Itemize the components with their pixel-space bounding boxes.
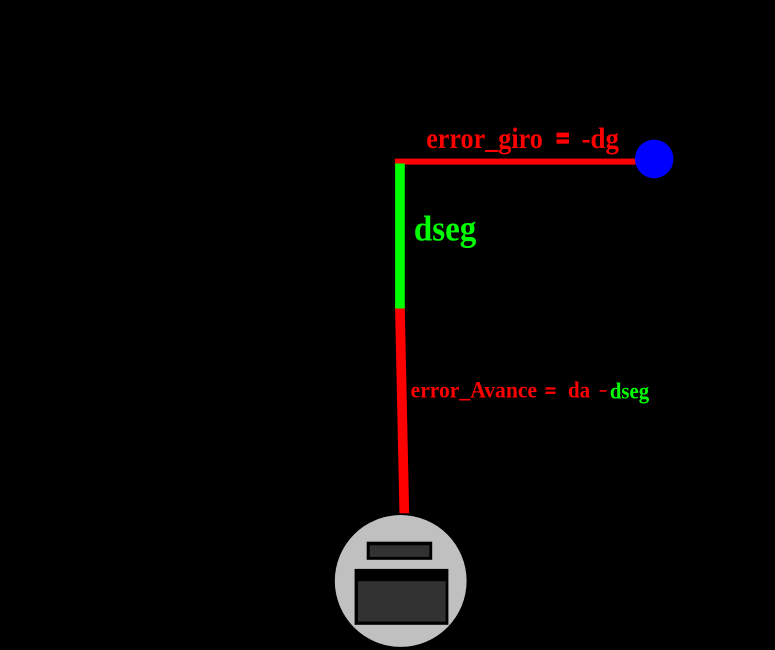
wire: green vertical dseg segment bbox=[395, 164, 405, 309]
label: = (small, drawn as bars) bbox=[545, 387, 555, 394]
wire: red slanted error_Avance segment bbox=[400, 305, 404, 514]
robot head sensor (small dark rectangle) bbox=[367, 542, 433, 560]
svg-text:error_giro: error_giro bbox=[426, 122, 543, 155]
label: - (small red minus) bbox=[600, 390, 607, 392]
svg-text:error_Avance: error_Avance bbox=[411, 377, 537, 403]
svg-text:da: da bbox=[568, 377, 590, 403]
svg-text:dseg: dseg bbox=[610, 379, 649, 405]
robot chassis (large dark rectangle) bbox=[355, 569, 449, 625]
svg-text:dseg: dseg bbox=[414, 209, 476, 249]
robot body (gray circle) bbox=[335, 515, 467, 647]
svg-text:-dg: -dg bbox=[582, 122, 619, 155]
wire: red horizontal error_giro segment bbox=[395, 159, 638, 165]
node: blue target point bbox=[635, 140, 674, 179]
label: = (big, drawn as bars) bbox=[557, 133, 570, 144]
